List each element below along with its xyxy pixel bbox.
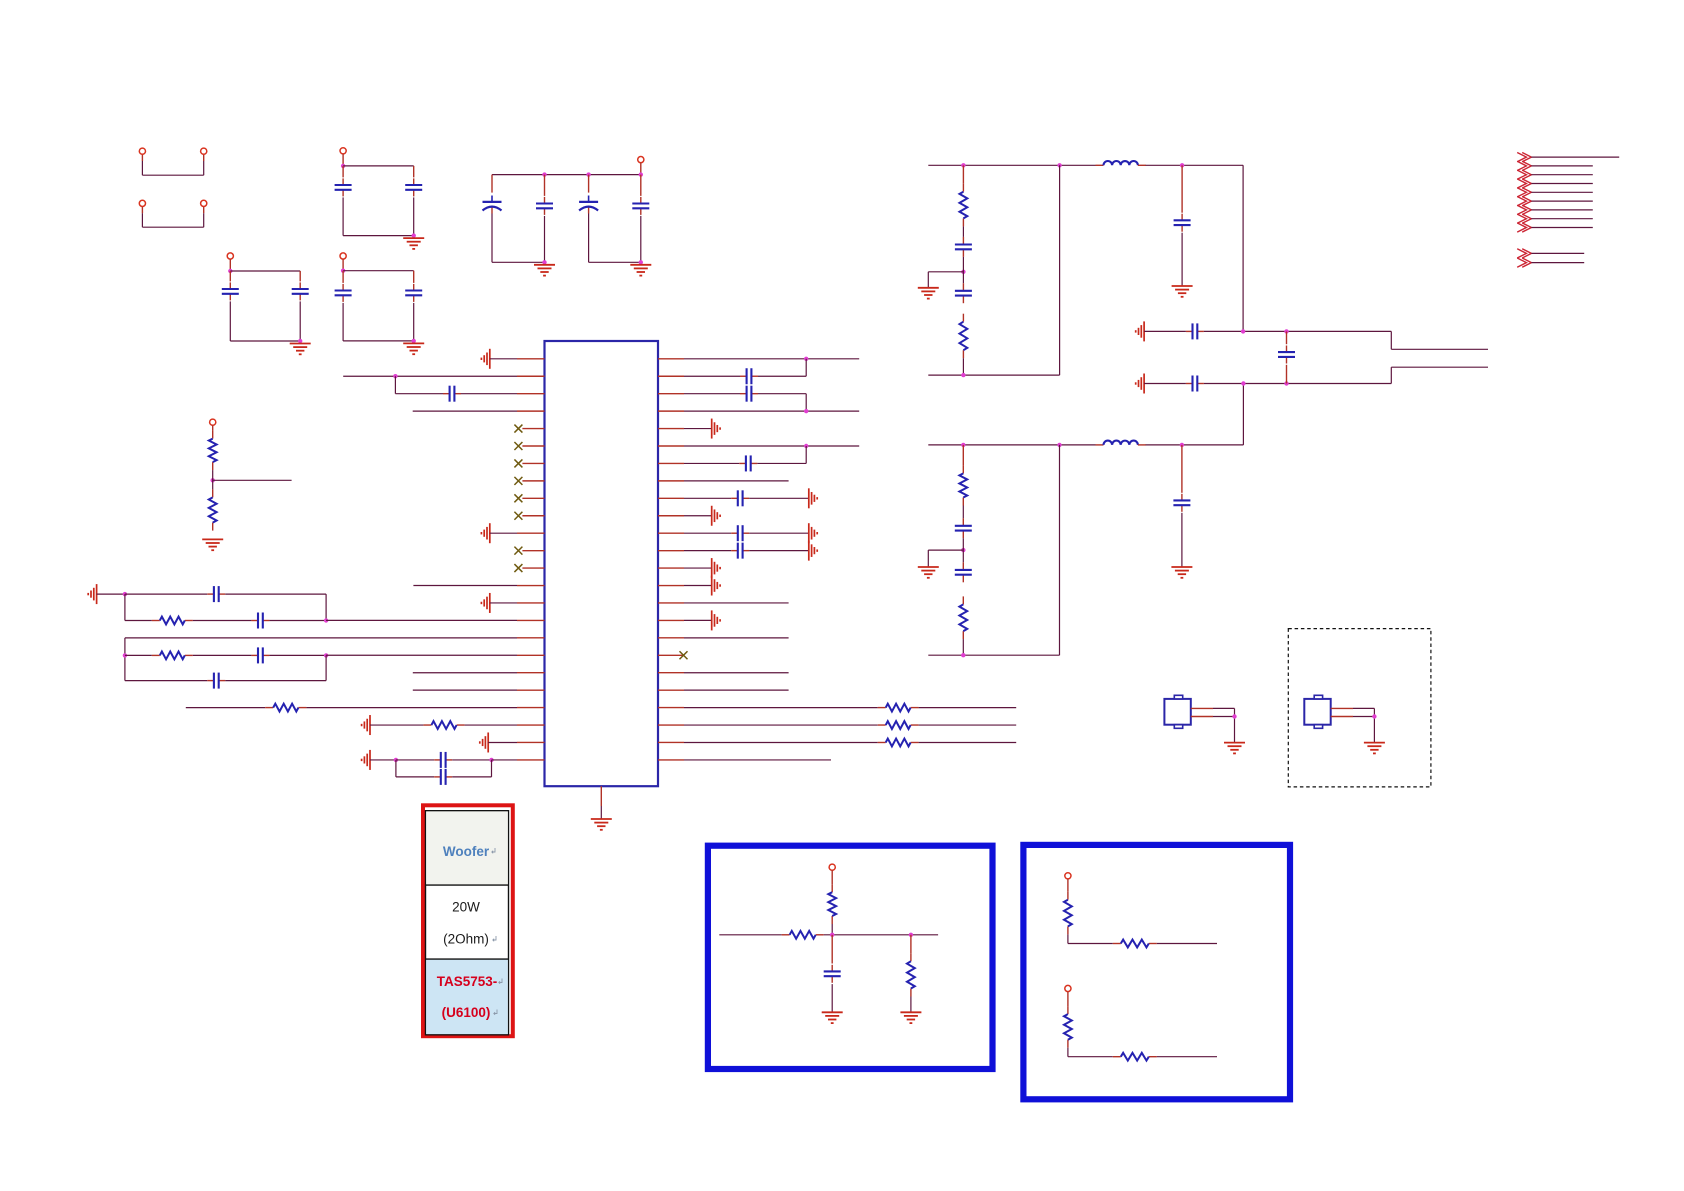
ground — [900, 1012, 921, 1023]
ground — [918, 567, 939, 578]
capacitor C2 — [292, 271, 309, 341]
pin 46 capacitor C19 — [658, 386, 806, 411]
wire — [1059, 445, 1061, 655]
resistor R15 — [782, 931, 824, 939]
capacitor C12 — [193, 613, 328, 629]
pin 44 ground — [658, 419, 720, 439]
capacitor C10 — [632, 175, 649, 263]
pin 1 ground — [481, 349, 544, 369]
resistor R14 — [828, 870, 836, 935]
capacitor C9 (polarized) — [579, 175, 598, 263]
off-page connector arrow 10 — [1517, 249, 1584, 258]
wire — [640, 163, 642, 175]
capacitor C31 — [1144, 376, 1243, 392]
wire — [1241, 329, 1391, 333]
pin 23 ground — [480, 732, 545, 752]
off-page connector arrow 5 — [1517, 188, 1593, 197]
wire — [343, 270, 414, 272]
pin 47 capacitor C18 — [658, 359, 806, 384]
pin 34 wire — [658, 602, 789, 604]
capacitor C30 — [1144, 323, 1243, 339]
pin 31 no-connect — [658, 651, 688, 659]
ground — [403, 238, 424, 249]
resistor R19 — [1064, 992, 1072, 1057]
pin 37 capacitor C23 ground — [658, 541, 817, 561]
terminal P2 — [340, 148, 346, 154]
dashed box — [1288, 629, 1431, 787]
resistor R13 — [959, 596, 967, 655]
pin 18 wire — [326, 654, 544, 656]
capacitor C32 — [1278, 331, 1295, 383]
IC ground — [591, 786, 612, 830]
wire — [97, 592, 128, 596]
pin 32 wire — [658, 637, 789, 639]
wire — [1059, 165, 1061, 375]
wire — [1391, 331, 1488, 349]
connector jumper J2 — [139, 200, 207, 227]
pin 40 capacitor C21 ground — [658, 488, 817, 508]
ground — [1172, 286, 1193, 297]
wire — [1146, 163, 1244, 167]
terminal P5 — [210, 419, 216, 425]
pin 19 wire — [413, 672, 545, 674]
resistor R17 — [1064, 879, 1072, 944]
off-page connector arrow 1 — [1517, 153, 1619, 162]
terminal P8 — [1065, 985, 1071, 991]
op-amp U6100 TAS5753 body — [545, 341, 659, 786]
pin 35 ground — [658, 576, 720, 596]
wire — [228, 259, 232, 273]
wire — [341, 259, 345, 273]
capacitor C7 (polarized) — [483, 175, 502, 263]
pin 33 ground — [658, 610, 720, 630]
switch SW2 — [1304, 695, 1330, 728]
wire — [123, 638, 127, 681]
off-page connector arrow 4 — [1517, 179, 1593, 188]
wire — [928, 373, 1059, 377]
off-page connector arrow 2 — [1517, 161, 1593, 170]
label box Woofer 20W (2Ohm) TAS5753 (U6100) — [423, 805, 513, 1036]
inductor L2 — [1096, 441, 1146, 445]
resistor R20 — [1068, 1053, 1217, 1061]
pin 29 wire — [658, 689, 789, 691]
off-page connector arrow 8 — [1517, 214, 1593, 223]
resistor R11 — [960, 314, 968, 375]
ground — [918, 288, 939, 299]
ground — [1136, 374, 1144, 394]
wire — [1191, 708, 1237, 742]
pin 5 no-connect — [514, 425, 544, 433]
off-page connector arrow 3 — [1517, 170, 1593, 179]
ground — [1364, 743, 1385, 754]
resistor R3 — [125, 617, 193, 625]
ground — [1224, 743, 1245, 754]
wire — [928, 653, 1059, 657]
wire — [343, 233, 416, 237]
capacitor C14 — [125, 655, 326, 688]
capacitor C26 — [1174, 165, 1191, 285]
node A — [211, 478, 215, 482]
wire — [1242, 165, 1244, 331]
wire — [1331, 708, 1377, 742]
wire — [492, 172, 643, 176]
pin 8 no-connect — [514, 477, 544, 485]
wire — [928, 443, 1095, 447]
wire — [230, 339, 302, 343]
pin 13 no-connect — [514, 564, 544, 572]
terminal P4 — [638, 157, 644, 163]
pin 7 no-connect — [514, 459, 544, 467]
pin 3 capacitor C15 — [395, 376, 544, 401]
wire — [719, 934, 781, 936]
capacitor C4 — [405, 166, 422, 236]
svg-text:(2Ohm): (2Ohm) — [443, 932, 489, 947]
capacitor C33 — [824, 935, 841, 1012]
wire — [213, 470, 292, 489]
wire — [1391, 367, 1488, 383]
off-page connector arrow 6 — [1517, 197, 1593, 206]
ground — [403, 343, 424, 354]
pin 48 wire — [658, 357, 859, 361]
resistor R1 — [209, 425, 217, 470]
pin 25 wire — [658, 759, 831, 761]
capacitor C13 — [193, 647, 328, 663]
terminal P3 — [340, 253, 346, 259]
wire — [1146, 443, 1244, 447]
pin 12 no-connect — [514, 547, 544, 555]
pin 15 ground — [481, 593, 544, 613]
pin 17 wire — [125, 637, 545, 639]
capacitor C6 — [405, 271, 422, 341]
terminal P7 — [1065, 873, 1071, 879]
capacitor C25 — [955, 283, 972, 303]
wire — [824, 933, 938, 937]
ground — [1136, 321, 1144, 341]
svg-text:TAS5753-: TAS5753- — [437, 974, 498, 989]
svg-text:Woofer: Woofer — [443, 844, 490, 859]
inductor L1 — [1096, 161, 1146, 165]
wire — [1241, 381, 1391, 385]
pin 39 ground — [658, 506, 720, 526]
capacitor C27 — [955, 518, 972, 538]
off-page connector arrow 11 — [1517, 258, 1584, 267]
pin 20 wire — [413, 689, 545, 691]
pin 16 wire — [326, 619, 544, 621]
pin 6 no-connect — [514, 442, 544, 450]
resistor R4 — [125, 652, 193, 660]
wire — [124, 594, 126, 620]
switch SW1 — [1164, 695, 1190, 728]
ground — [534, 265, 555, 276]
capacitor C24 — [955, 237, 972, 257]
pin 11 ground — [481, 523, 544, 543]
wire — [343, 339, 416, 343]
ground — [630, 265, 651, 276]
ground — [822, 1012, 843, 1023]
ground — [202, 539, 223, 550]
wire — [492, 260, 547, 264]
pin 45 wire — [658, 409, 859, 413]
pin 30 wire — [658, 672, 789, 674]
pin 26 resistor R9 — [658, 739, 1016, 747]
ground — [290, 344, 311, 355]
resistor R16 — [907, 935, 915, 1012]
wire — [343, 165, 414, 167]
wire — [961, 506, 965, 563]
pin 24 ground capacitors C16 C17 — [362, 750, 545, 785]
pin 27 resistor R8 — [658, 721, 1016, 729]
off-page connector arrow 7 — [1517, 205, 1593, 214]
capacitor C28 — [955, 562, 972, 582]
capacitor C5 — [335, 271, 352, 341]
blue box 1 — [708, 846, 993, 1069]
wire — [961, 226, 965, 283]
pin 9 no-connect — [514, 494, 544, 502]
pin 43 wire — [658, 444, 859, 448]
capacitor C8 — [536, 175, 553, 263]
svg-text:(U6100): (U6100) — [442, 1005, 491, 1020]
capacitor C29 — [1173, 445, 1190, 567]
resistor R10 — [960, 165, 968, 226]
resistor R12 — [959, 445, 967, 506]
capacitor C11 — [125, 586, 326, 620]
pin 42 capacitor C20 — [658, 446, 806, 471]
wire — [928, 272, 963, 288]
pin 28 resistor R7 — [658, 704, 1016, 712]
wire — [341, 154, 345, 168]
ground — [1171, 567, 1192, 578]
wire — [230, 270, 300, 272]
pin 36 ground — [658, 558, 720, 578]
svg-text:20W: 20W — [452, 900, 480, 915]
wire — [589, 260, 643, 264]
pin 22 ground resistor R6 — [362, 715, 545, 735]
terminal P1 — [227, 253, 233, 259]
capacitor C3 — [335, 166, 352, 236]
pin 41 wire — [658, 480, 789, 482]
connector jumper J1 — [139, 148, 207, 175]
resistor R2 — [209, 489, 217, 530]
wire — [1242, 384, 1244, 445]
pin 4 wire — [413, 410, 545, 412]
ground — [88, 584, 96, 604]
pin 38 capacitor C22 ground — [658, 523, 817, 543]
capacitor C1 — [222, 271, 239, 341]
blue box 2 — [1023, 845, 1290, 1099]
wire — [928, 163, 1095, 167]
pin 21 resistor R5 — [186, 704, 545, 712]
resistor R18 — [1068, 940, 1217, 948]
pin 14 wire — [413, 585, 544, 587]
pin 2 wire — [343, 374, 544, 378]
pin 10 no-connect — [514, 512, 544, 520]
terminal P6 — [829, 864, 835, 870]
wire — [928, 550, 963, 566]
off-page connector arrow 9 — [1517, 223, 1593, 232]
